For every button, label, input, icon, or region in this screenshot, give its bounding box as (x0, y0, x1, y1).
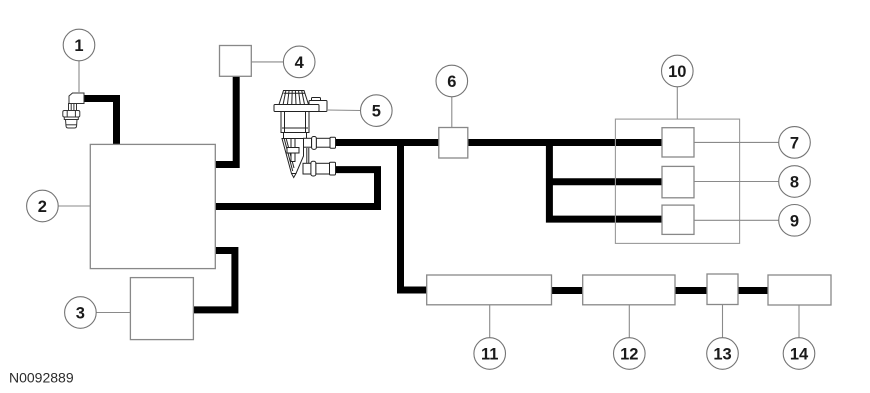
callout circle 8 (779, 166, 811, 198)
wire box2-to-box3 (193, 251, 235, 310)
wire branch-to-box8 (546, 178, 663, 185)
svg-text:11: 11 (481, 346, 498, 364)
callout circle 1 (63, 29, 95, 61)
leader 4 (251, 61, 283, 63)
wire drop-to-box11 (401, 146, 428, 290)
leader 3 (96, 312, 131, 314)
box 8 (662, 166, 694, 197)
box 3 (130, 278, 193, 340)
leader 2 (58, 205, 91, 207)
svg-text:8: 8 (790, 174, 799, 192)
svg-text:1: 1 (74, 37, 83, 55)
wire box11-to-box12 (551, 287, 583, 294)
svg-text:9: 9 (790, 212, 799, 230)
callout circle 7 (779, 127, 811, 159)
leader 12 (628, 305, 630, 338)
leader 10 (676, 86, 678, 119)
svg-text:6: 6 (447, 73, 456, 91)
box 9 (662, 205, 694, 234)
svg-text:7: 7 (790, 134, 799, 152)
callout circle 3 (65, 297, 97, 329)
component 1 vacuum fitting (63, 93, 84, 128)
upper hose port of valve (304, 138, 312, 147)
box 10 outline (615, 119, 739, 243)
wire branch-to-box9 (549, 143, 663, 220)
wire box13-to-box14 (738, 287, 768, 294)
callout circle 2 (27, 190, 59, 222)
svg-text:13: 13 (713, 346, 731, 364)
box 12 (583, 275, 675, 305)
leader 1 (78, 60, 80, 93)
leader 8 (694, 181, 779, 183)
box 13 (707, 274, 738, 305)
svg-text:4: 4 (295, 54, 305, 72)
callout circle 11 (474, 338, 506, 370)
leader 13 (722, 305, 724, 339)
box 2 (90, 144, 215, 268)
svg-text:12: 12 (620, 346, 638, 364)
leader 9 (694, 219, 779, 221)
box 11 (427, 275, 552, 305)
callout circle 13 (707, 338, 739, 370)
wire valve-top-port-to-box7 main line (336, 139, 663, 146)
component 5 canister purge valve (274, 91, 336, 178)
wire box12-to-box13 (675, 287, 707, 294)
leader 11 (489, 305, 491, 338)
leader 6 (451, 96, 453, 127)
leader 7 (694, 141, 779, 143)
callout circle 12 (614, 338, 646, 370)
wire box4-to-box2 (215, 77, 236, 165)
callout circle 6 (436, 65, 468, 97)
leader 5 (327, 109, 361, 112)
callout circle 10 (662, 55, 694, 87)
svg-text:2: 2 (38, 198, 47, 216)
box 14 (768, 275, 831, 305)
box 6 (439, 128, 468, 159)
svg-text:3: 3 (76, 305, 85, 323)
callout circle 4 (283, 46, 315, 78)
svg-text:5: 5 (372, 103, 381, 121)
lower hose port of valve (303, 163, 311, 174)
svg-text:N0092889: N0092889 (9, 370, 74, 386)
callout circle 14 (783, 338, 815, 370)
box 4 (220, 46, 252, 77)
svg-text:14: 14 (790, 346, 809, 364)
leader 14 (798, 305, 800, 338)
callout circle 9 (779, 205, 811, 237)
wire box2-to-valve-lower-port (215, 170, 377, 207)
callout circle 5 (361, 95, 393, 127)
box 7 (662, 128, 694, 157)
svg-text:10: 10 (668, 63, 686, 81)
wire fitting-to-box2 (84, 99, 117, 145)
